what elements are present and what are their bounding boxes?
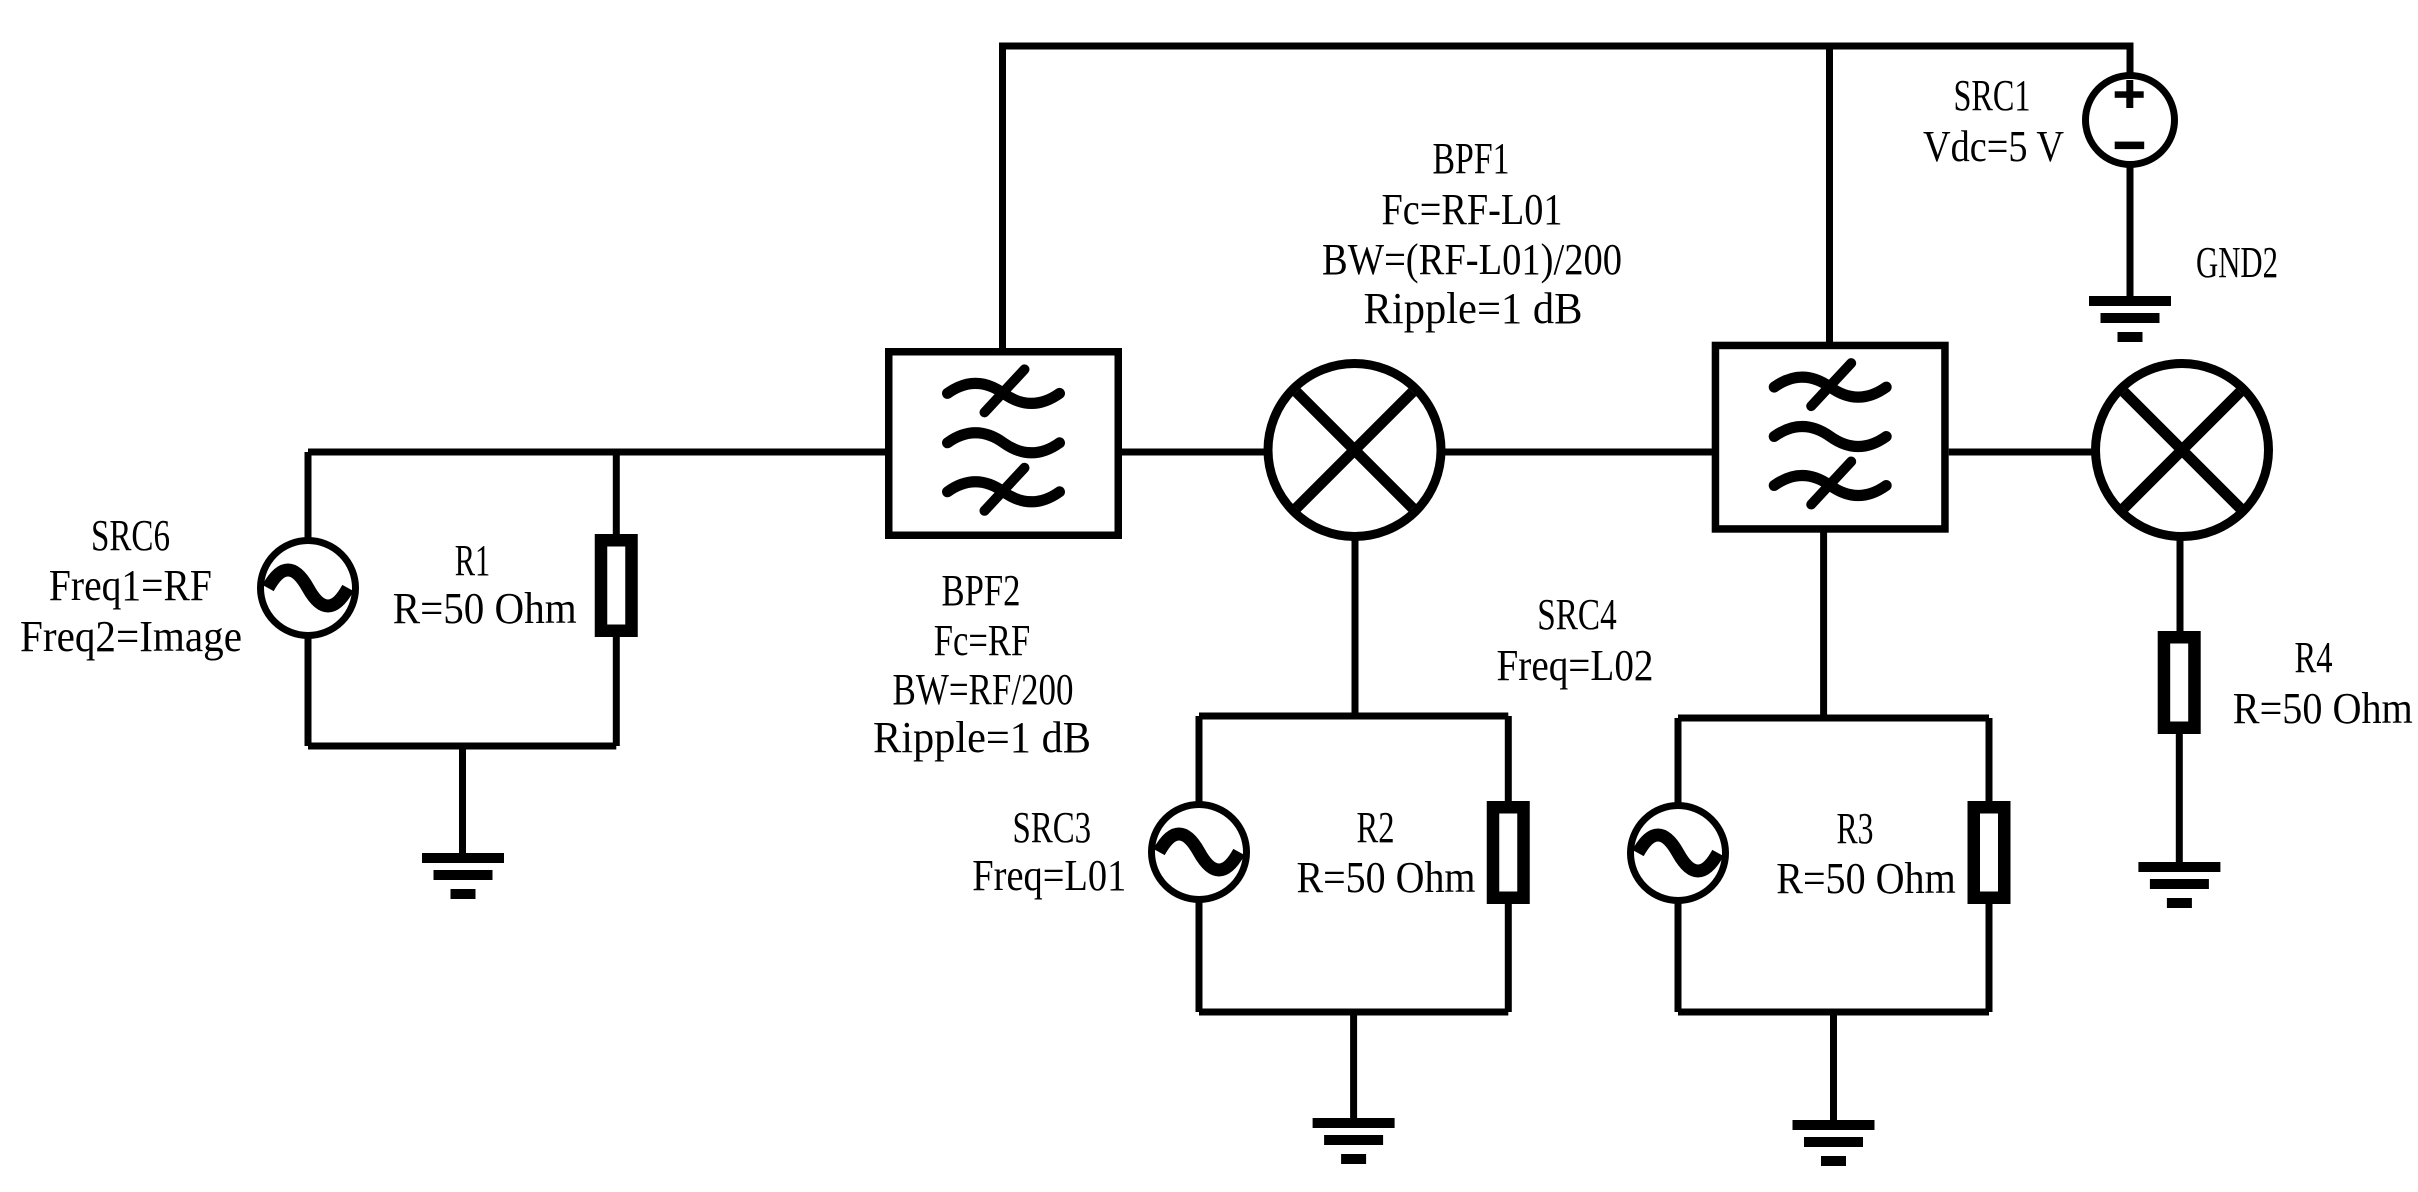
svg-text:R3: R3 (1837, 804, 1874, 853)
mixer MIX1 (1268, 364, 1441, 537)
resistor R3 (1974, 807, 2005, 898)
svg-text:GND2: GND2 (2196, 238, 2278, 287)
wire SRC1 bottom lead to GND2 (2127, 164, 2134, 298)
AC source SRC3 (1152, 805, 1247, 900)
AC source SRC6 (261, 541, 356, 636)
wire SRC4 top lead (1675, 718, 1682, 806)
wire SRC6 bottom lead to bottom rail (305, 636, 312, 746)
wire top rail T-branch down to BPF1 filter box top (1826, 46, 1833, 342)
svg-text:R2: R2 (1357, 803, 1395, 852)
wire SRC3 bottom lead (1196, 899, 1203, 1012)
wire top rail from BPF2 top via corners to SRC1 top (1003, 46, 2131, 348)
svg-text:SRC3: SRC3 (1013, 803, 1092, 852)
svg-text:BPF1: BPF1 (1433, 134, 1510, 183)
wire mixer MIX2 output lead down to R4 (2177, 534, 2184, 636)
AC source SRC4 (1631, 806, 1726, 901)
wire R3 top lead (1986, 718, 1993, 804)
wire SRC6/R1 bottom rail (308, 743, 616, 750)
wire mixer MIX1 to BPF1 filter box input (1443, 449, 1712, 456)
resistor R1 (601, 540, 632, 631)
resistor R4 (2164, 637, 2195, 728)
svg-text:BW=RF/200: BW=RF/200 (893, 665, 1074, 714)
wire SRC3/R2 top rail (1199, 713, 1508, 720)
svg-text:Ripple=1 dB: Ripple=1 dB (873, 713, 1091, 762)
mixer MIX2 (2096, 364, 2269, 537)
svg-text:Vdc=5 V: Vdc=5 V (1923, 122, 2064, 171)
svg-text:R=50 Ohm: R=50 Ohm (2233, 684, 2413, 733)
wire R3 bottom lead (1986, 901, 1993, 1012)
svg-text:R4: R4 (2295, 633, 2333, 682)
wire ground stem of SRC4/R3 loop (1830, 1012, 1837, 1122)
wire SRC4 bottom lead (1675, 900, 1682, 1012)
wire BPF1 filter box bottom lead down to SRC4/R3 rail (1820, 530, 1827, 718)
wire SRC3 top lead (1196, 716, 1203, 805)
band-pass filter BPF2 box (889, 352, 1119, 536)
wire BPF1 filter box output to mixer MIX2 (1949, 449, 2093, 456)
wire R1 bottom lead (613, 634, 620, 746)
svg-text:R=50 Ohm: R=50 Ohm (393, 584, 577, 633)
ground below SRC3/R2 loop (1313, 1118, 1395, 1164)
svg-text:Freq=L02: Freq=L02 (1497, 641, 1654, 690)
resistor R2 (1493, 807, 1524, 898)
svg-text:Fc=RF: Fc=RF (934, 616, 1031, 665)
band-pass filter BPF1 box (1715, 345, 1945, 529)
wire SRC3/R2 bottom rail (1199, 1009, 1508, 1016)
wire ground stem of SRC3/R2 loop (1350, 1012, 1357, 1120)
wire SRC4/R3 top rail (1678, 715, 1989, 722)
DC source SRC1 (2086, 76, 2175, 165)
wire ground stem of SRC6/R1 loop (459, 746, 466, 855)
wire SRC4/R3 bottom rail (1678, 1009, 1989, 1016)
ground GND2 (2089, 296, 2171, 342)
wire R2 top lead (1505, 716, 1512, 804)
svg-text:Freq=L01: Freq=L01 (972, 851, 1126, 900)
wire SRC6/R1 node to BPF2 input (308, 449, 885, 456)
svg-text:SRC6: SRC6 (91, 511, 170, 560)
svg-text:SRC4: SRC4 (1537, 590, 1616, 639)
svg-text:SRC1: SRC1 (1954, 71, 2031, 120)
wire SRC6 top lead (305, 452, 312, 540)
wire R4 bottom lead to ground (2176, 731, 2183, 864)
svg-text:R=50 Ohm: R=50 Ohm (1776, 854, 1956, 903)
svg-text:BPF2: BPF2 (942, 566, 1021, 615)
ground below SRC6/R1 loop (422, 853, 504, 899)
wire R2 bottom lead (1505, 901, 1512, 1012)
ground below R4 (2138, 862, 2220, 908)
svg-text:Fc=RF-L01: Fc=RF-L01 (1382, 185, 1563, 234)
wire R1 top lead (613, 452, 620, 537)
svg-text:R1: R1 (455, 536, 491, 585)
wire mixer MIX1 LO lead down (1352, 534, 1359, 716)
ground below SRC4/R3 loop (1793, 1120, 1875, 1166)
wire BPF2 output to mixer MIX1 (1122, 449, 1266, 456)
svg-text:Freq2=Image: Freq2=Image (20, 612, 242, 661)
svg-text:Freq1=RF: Freq1=RF (49, 561, 212, 610)
svg-text:R=50 Ohm: R=50 Ohm (1297, 853, 1476, 902)
svg-text:Ripple=1 dB: Ripple=1 dB (1364, 284, 1583, 333)
svg-text:BW=(RF-L01)/200: BW=(RF-L01)/200 (1322, 235, 1622, 284)
